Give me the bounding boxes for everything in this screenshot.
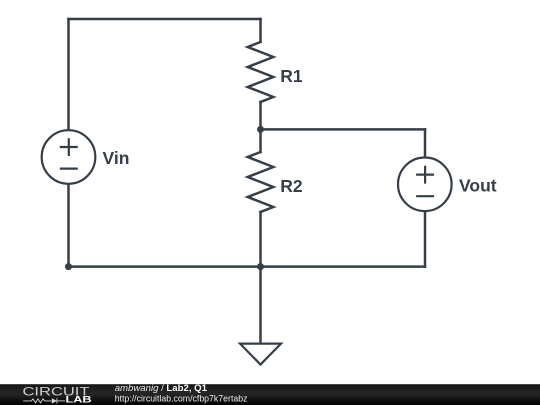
ground symbol — [240, 344, 281, 365]
resistor R1 — [248, 42, 274, 102]
Vin minus sign — [60, 168, 78, 170]
svg-text:Vin: Vin — [103, 148, 130, 168]
resistor R2 — [248, 152, 274, 212]
wire R1 top lead — [259, 19, 262, 42]
Vout minus sign — [416, 195, 434, 197]
wire mid horizontal (node to Vout branch) — [261, 128, 426, 131]
wire right vertical bottom (Vout to bottom rail) — [424, 211, 427, 266]
wire R2 top lead — [259, 129, 262, 152]
Vout plus sign — [416, 166, 434, 184]
wire left vertical bottom (Vin to bottom rail) — [67, 184, 70, 267]
Vin plus sign — [60, 138, 78, 156]
node junction dot (R1/R2/Vout net) — [257, 126, 264, 133]
logo diode triangle — [52, 398, 57, 403]
wire ground stem — [259, 267, 262, 343]
wire bottom rail — [69, 265, 426, 268]
CircuitLab logo wire with resistor and diode — [23, 398, 65, 403]
node junction dot (bottom left, Vin- net) — [65, 263, 72, 270]
svg-text:R2: R2 — [280, 176, 303, 196]
svg-text:http://circuitlab.com/cfbp7k7e: http://circuitlab.com/cfbp7k7ertabz — [115, 393, 248, 404]
voltage source V1 Vin circle — [42, 130, 96, 184]
voltage source V2 Vout circle — [398, 158, 452, 212]
wire top rail — [69, 18, 261, 21]
svg-text:Vout: Vout — [459, 175, 497, 195]
wire right vertical top (to Vout) — [424, 129, 427, 157]
svg-text:LAB: LAB — [66, 395, 92, 405]
node junction dot (bottom center, ground net) — [257, 263, 264, 270]
svg-text:ambwanig / Lab2, Q1: ambwanig / Lab2, Q1 — [115, 383, 208, 394]
wire R1 bottom lead to node — [259, 102, 262, 129]
wire R2 bottom lead — [259, 212, 262, 267]
wire left vertical top (top rail to Vin) — [67, 19, 70, 130]
svg-text:R1: R1 — [280, 66, 303, 86]
